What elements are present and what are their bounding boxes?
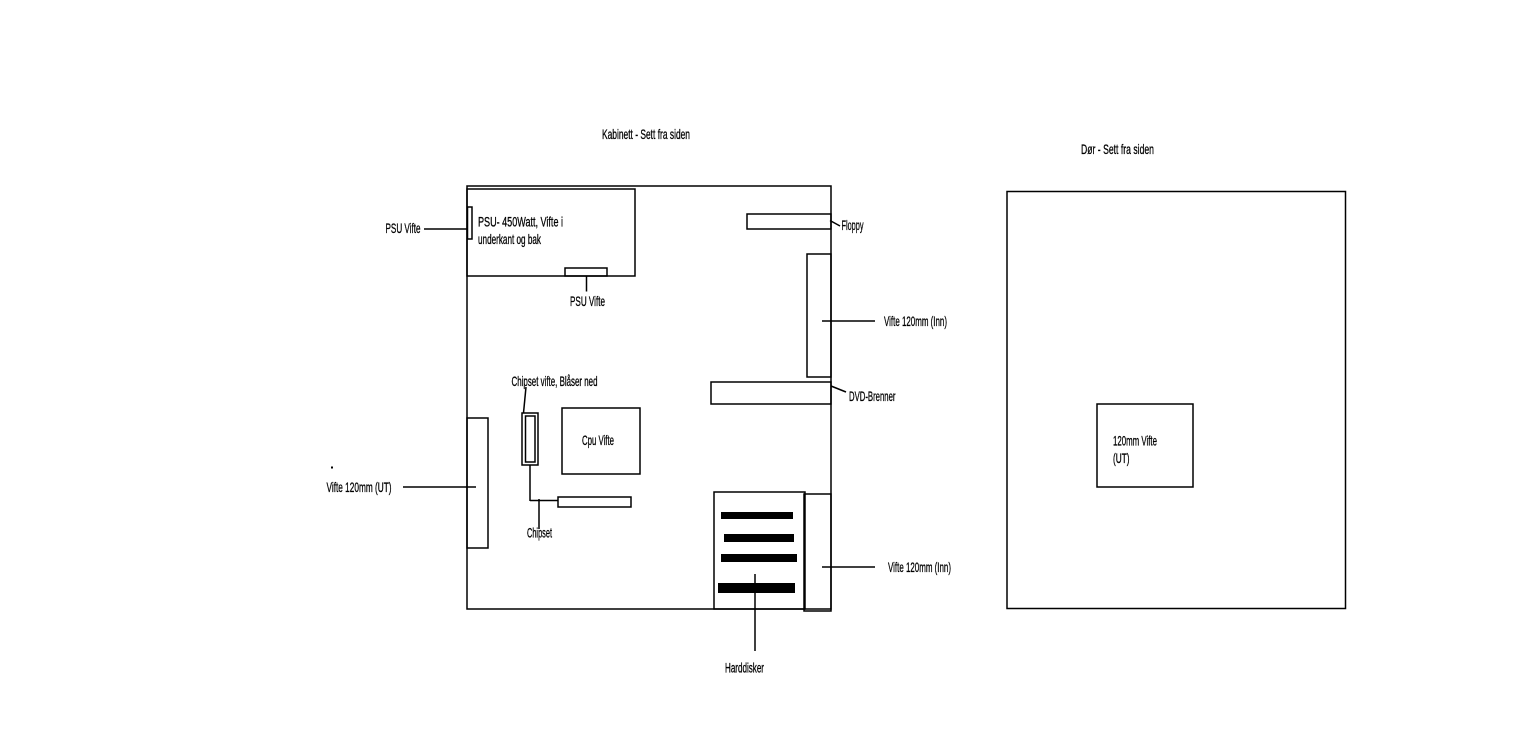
svg-text:PSU- 450Watt, Vifte i: PSU- 450Watt, Vifte i [478,214,563,230]
svg-text:Kabinett - Sett fra siden: Kabinett - Sett fra siden [602,126,690,142]
svg-text:PSU Vifte: PSU Vifte [386,220,421,236]
svg-text:Chipset: Chipset [527,525,552,541]
svg-text:120mm Vifte: 120mm Vifte [1113,433,1157,449]
svg-text:Dør - Sett fra siden: Dør - Sett fra siden [1081,141,1154,157]
svg-text:DVD-Brenner: DVD-Brenner [849,388,896,404]
svg-text:underkant og bak: underkant og bak [478,231,542,247]
svg-text:Vifte 120mm (Inn): Vifte 120mm (Inn) [884,313,947,329]
svg-text:Vifte 120mm (Inn): Vifte 120mm (Inn) [888,559,951,575]
svg-text:Floppy: Floppy [842,217,864,233]
svg-text:Cpu Vifte: Cpu Vifte [582,432,614,448]
svg-text:(UT): (UT) [1113,450,1130,466]
svg-text:Vifte 120mm (UT): Vifte 120mm (UT) [327,479,392,495]
svg-text:PSU Vifte: PSU Vifte [570,293,605,309]
svg-text:Harddisker: Harddisker [725,660,764,676]
svg-text:Chipset vifte, Blåser ned: Chipset vifte, Blåser ned [512,373,598,389]
